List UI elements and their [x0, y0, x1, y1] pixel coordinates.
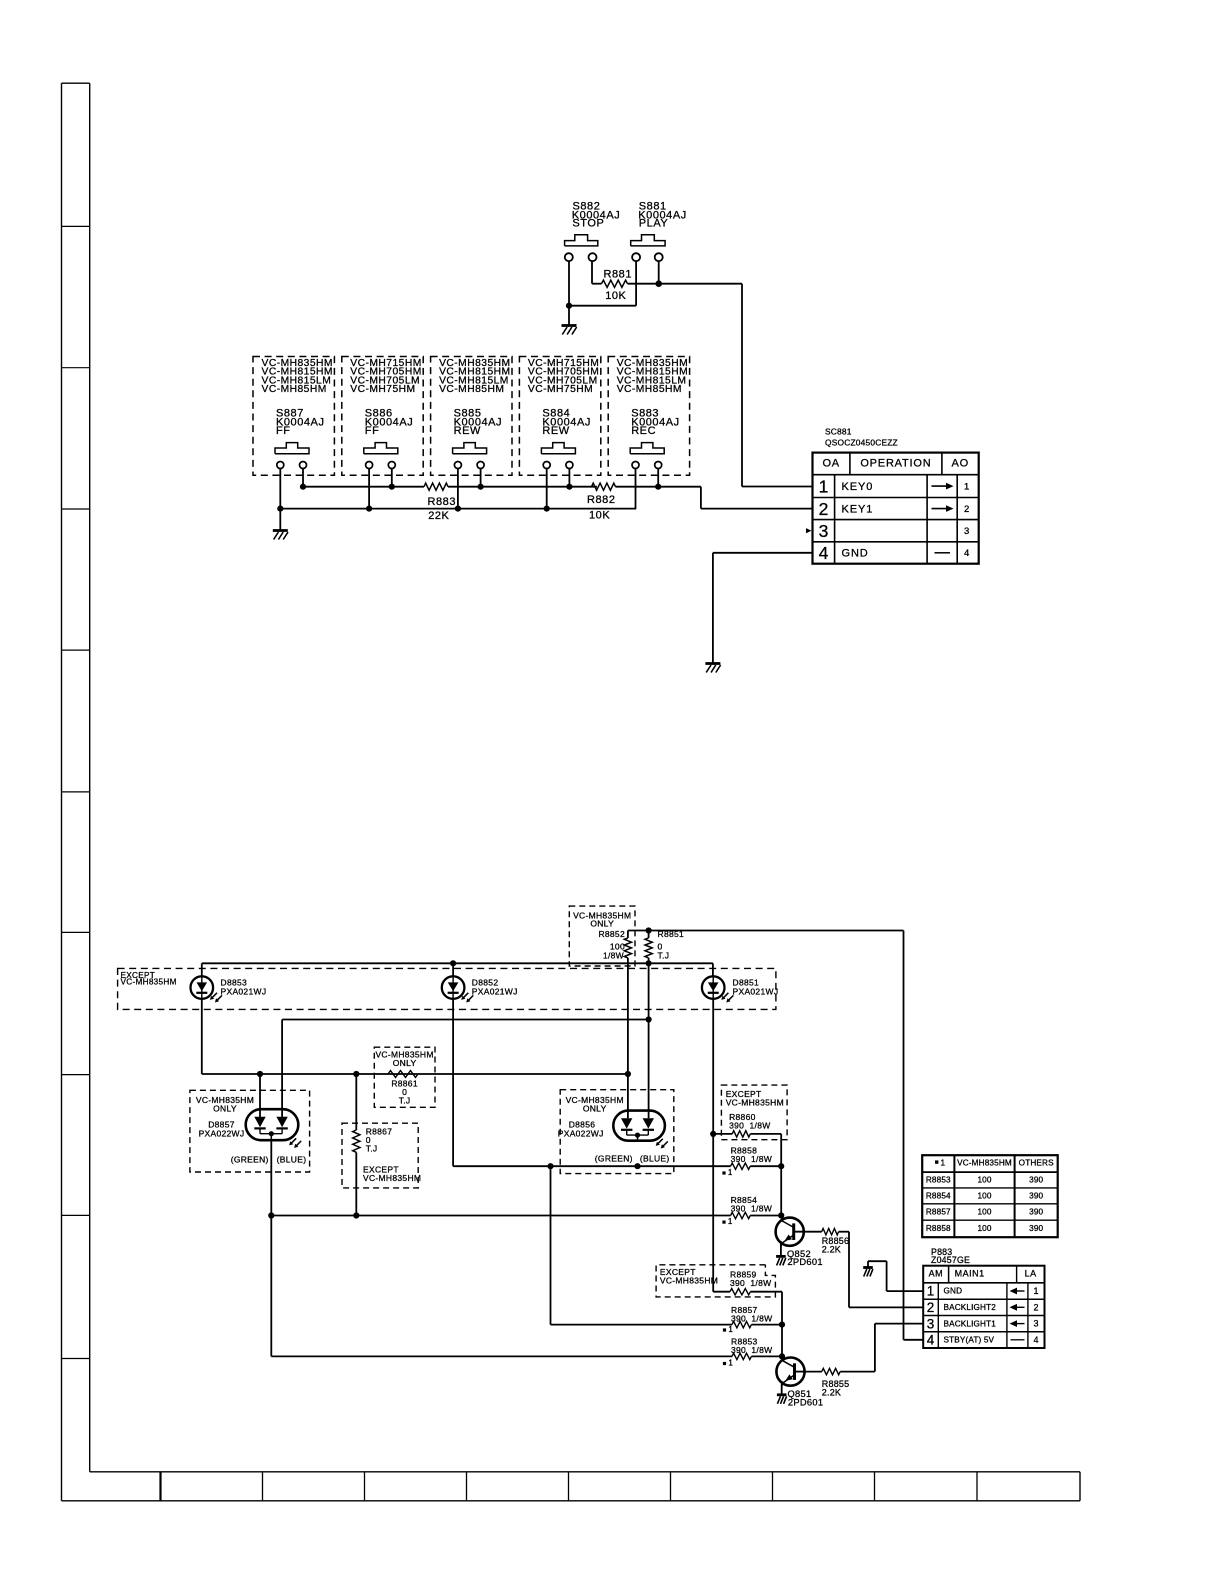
svg-text:4: 4 — [819, 543, 829, 563]
svg-text:PXA022WJ: PXA022WJ — [199, 1128, 245, 1138]
svg-text:1: 1 — [728, 1168, 733, 1177]
svg-text:OA: OA — [822, 457, 840, 469]
svg-text:2: 2 — [964, 504, 970, 515]
svg-text:390 1/8W: 390 1/8W — [730, 1278, 771, 1288]
svg-text:R8858: R8858 — [926, 1224, 951, 1233]
svg-text:ONLY: ONLY — [213, 1103, 237, 1113]
svg-text:BACKLIGHT2: BACKLIGHT2 — [944, 1303, 997, 1312]
svg-text:VC-MH85HM: VC-MH85HM — [262, 384, 327, 395]
svg-text:4: 4 — [927, 1333, 935, 1348]
svg-text:1: 1 — [927, 1284, 935, 1299]
svg-text:2PD601: 2PD601 — [788, 1397, 823, 1407]
svg-text:VC-MH835HM: VC-MH835HM — [121, 978, 177, 987]
svg-text:3: 3 — [927, 1316, 935, 1331]
svg-text:ONLY: ONLY — [590, 919, 614, 929]
svg-text:10K: 10K — [589, 510, 610, 522]
svg-text:R8851: R8851 — [658, 929, 685, 939]
svg-text:390 1/8W: 390 1/8W — [731, 1314, 772, 1324]
svg-text:MAIN1: MAIN1 — [955, 1269, 985, 1279]
svg-text:VC-MH835HM: VC-MH835HM — [726, 1097, 784, 1107]
svg-text:R882: R882 — [587, 494, 616, 506]
svg-text:BACKLIGHT1: BACKLIGHT1 — [944, 1319, 997, 1328]
svg-text:VC-MH75HM: VC-MH75HM — [528, 384, 593, 395]
svg-text:3: 3 — [964, 526, 970, 537]
svg-text:PXA021WJ: PXA021WJ — [733, 986, 779, 996]
svg-text:GND: GND — [944, 1287, 963, 1296]
svg-text:2: 2 — [1034, 1302, 1039, 1312]
svg-text:390: 390 — [1029, 1208, 1043, 1217]
svg-text:STOP: STOP — [572, 218, 604, 230]
svg-text:100: 100 — [977, 1208, 991, 1217]
svg-text:KEY1: KEY1 — [842, 503, 874, 515]
svg-text:390: 390 — [1029, 1191, 1043, 1200]
svg-text:T.J: T.J — [366, 1144, 378, 1154]
svg-text:1/8W: 1/8W — [603, 950, 624, 960]
svg-text:SC881: SC881 — [825, 427, 852, 437]
svg-text:KEY0: KEY0 — [842, 481, 874, 493]
svg-text:LA: LA — [1025, 1269, 1037, 1279]
svg-text:1: 1 — [1034, 1286, 1039, 1296]
svg-text:2.2K: 2.2K — [822, 1387, 841, 1397]
svg-text:AM: AM — [929, 1269, 944, 1279]
svg-text:Z0457GE: Z0457GE — [931, 1255, 970, 1265]
svg-text:PXA021WJ: PXA021WJ — [221, 986, 267, 996]
svg-text:390: 390 — [1029, 1176, 1043, 1185]
svg-text:(GREEN): (GREEN) — [231, 1155, 269, 1165]
svg-text:FF: FF — [276, 425, 291, 437]
svg-text:PXA022WJ: PXA022WJ — [558, 1128, 604, 1138]
svg-text:T.J: T.J — [658, 950, 670, 960]
svg-text:(GREEN): (GREEN) — [595, 1153, 633, 1163]
svg-text:VC-MH85HM: VC-MH85HM — [439, 384, 504, 395]
svg-text:AO: AO — [952, 457, 970, 469]
svg-text:PLAY: PLAY — [639, 218, 669, 230]
svg-text:2PD601: 2PD601 — [787, 1257, 822, 1267]
svg-text:3: 3 — [819, 521, 829, 541]
svg-text:4: 4 — [964, 548, 970, 559]
svg-text:4: 4 — [1034, 1335, 1039, 1345]
svg-text:FF: FF — [365, 425, 380, 437]
svg-text:STBY(AT) 5V: STBY(AT) 5V — [944, 1336, 995, 1345]
svg-text:390 1/8W: 390 1/8W — [731, 1154, 772, 1164]
svg-text:10K: 10K — [605, 290, 626, 302]
svg-text:OTHERS: OTHERS — [1019, 1159, 1054, 1168]
svg-text:390 1/8W: 390 1/8W — [729, 1121, 770, 1131]
svg-text:R881: R881 — [604, 268, 633, 280]
svg-text:R8857: R8857 — [926, 1208, 951, 1217]
svg-text:GND: GND — [842, 548, 869, 560]
svg-text:VC-MH835HM: VC-MH835HM — [957, 1159, 1012, 1168]
svg-text:(BLUE): (BLUE) — [640, 1153, 670, 1163]
svg-text:1: 1 — [728, 1359, 733, 1368]
svg-text:1: 1 — [728, 1325, 733, 1334]
svg-text:VC-MH835HM: VC-MH835HM — [660, 1276, 718, 1286]
svg-text:R8853: R8853 — [926, 1176, 951, 1185]
svg-text:100: 100 — [977, 1224, 991, 1233]
svg-text:22K: 22K — [428, 510, 449, 522]
svg-text:390 1/8W: 390 1/8W — [731, 1345, 772, 1355]
svg-text:VC-MH85HM: VC-MH85HM — [617, 384, 682, 395]
svg-text:ONLY: ONLY — [583, 1103, 607, 1113]
svg-text:(BLUE): (BLUE) — [277, 1155, 307, 1165]
svg-text:2.2K: 2.2K — [822, 1245, 841, 1255]
svg-text:REC: REC — [631, 425, 656, 437]
svg-text:R8854: R8854 — [926, 1191, 951, 1200]
svg-text:1: 1 — [964, 481, 970, 492]
svg-text:VC-MH835HM: VC-MH835HM — [363, 1173, 421, 1183]
svg-text:T.J: T.J — [399, 1096, 411, 1106]
svg-text:1: 1 — [941, 1158, 946, 1167]
svg-text:2: 2 — [927, 1300, 935, 1315]
svg-text:1: 1 — [728, 1217, 733, 1226]
svg-text:390 1/8W: 390 1/8W — [731, 1203, 772, 1213]
svg-text:REW: REW — [454, 425, 481, 437]
svg-text:3: 3 — [1034, 1319, 1039, 1329]
svg-text:R8852: R8852 — [598, 929, 625, 939]
svg-text:1: 1 — [819, 476, 829, 496]
svg-text:ONLY: ONLY — [393, 1058, 417, 1068]
svg-text:QSOCZ0450CEZZ: QSOCZ0450CEZZ — [825, 438, 898, 448]
svg-text:VC-MH75HM: VC-MH75HM — [350, 384, 415, 395]
svg-text:PXA021WJ: PXA021WJ — [472, 986, 518, 996]
svg-text:2: 2 — [819, 499, 829, 519]
svg-text:100: 100 — [977, 1191, 991, 1200]
svg-text:390: 390 — [1029, 1224, 1043, 1233]
svg-text:R883: R883 — [428, 496, 457, 508]
svg-text:OPERATION: OPERATION — [860, 457, 931, 469]
svg-text:REW: REW — [542, 425, 569, 437]
svg-text:100: 100 — [977, 1176, 991, 1185]
